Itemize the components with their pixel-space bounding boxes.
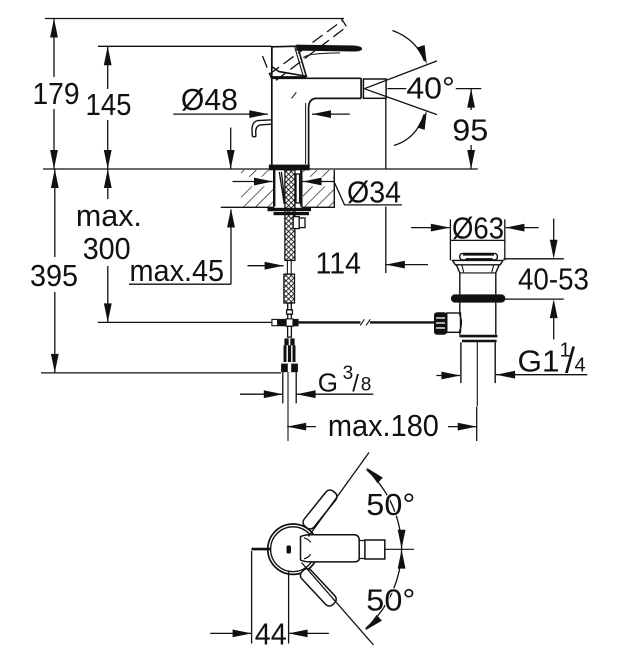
extension line 145 level xyxy=(98,45,272,47)
svg-text:G1: G1 xyxy=(518,343,560,378)
pop-up actuator hook on body xyxy=(252,120,272,137)
svg-text:Ø48: Ø48 xyxy=(181,82,238,117)
faucet body outline xyxy=(272,47,361,165)
supply pipe xyxy=(283,372,296,403)
faucet body circle inner xyxy=(271,527,316,572)
stem below T xyxy=(288,326,292,337)
drain rubber seal xyxy=(451,294,506,302)
lower 50° ray xyxy=(302,563,374,646)
pop-up horizontal rod (right, with break) xyxy=(299,321,437,323)
dimension 395 xyxy=(54,169,56,373)
max.45 upper arrow (deck top) xyxy=(230,128,232,169)
handle raised position (dashed) xyxy=(263,19,347,81)
svg-text:95: 95 xyxy=(452,113,488,148)
dimension 114 vertical line xyxy=(385,207,387,274)
drain taper xyxy=(456,265,499,295)
mounting deck left block xyxy=(221,170,274,207)
svg-text:max.: max. xyxy=(76,198,142,233)
faucet body shoulder (thick top line) xyxy=(272,76,307,79)
arrow Ø34 right (hole right edge) xyxy=(303,181,334,183)
svg-text:40-53: 40-53 xyxy=(518,262,589,297)
spout outlet vertical reference line xyxy=(385,98,387,169)
lower 50° arc xyxy=(366,549,402,628)
arrow Ø48 right side xyxy=(312,113,350,115)
pop-up rod T-connector xyxy=(272,319,299,326)
drain knurled knob xyxy=(434,312,447,335)
arrow 114 left xyxy=(248,265,284,267)
knurled adapter small xyxy=(284,338,294,345)
arrow 114 right xyxy=(386,264,428,266)
bottom reference line (395 level) xyxy=(41,372,281,374)
dimension 44 xyxy=(210,551,329,644)
handle lever (solid) xyxy=(297,45,362,58)
horseshoe washer xyxy=(268,208,312,215)
svg-text:50°: 50° xyxy=(366,487,415,522)
dimension 40-53 xyxy=(504,219,564,340)
dimension 179 xyxy=(53,19,55,170)
svg-text:Ø34: Ø34 xyxy=(347,175,401,210)
svg-text:/: / xyxy=(565,340,575,381)
shank cone wedge below deck xyxy=(279,172,285,204)
shank fixing bolt xyxy=(296,174,300,203)
handle base escutcheon xyxy=(272,46,307,76)
faucet body inner highlight line xyxy=(292,92,306,164)
GROHE logo mark xyxy=(287,546,292,554)
svg-text:50°: 50° xyxy=(366,583,415,618)
drain locking rings xyxy=(459,336,497,341)
rod break marks xyxy=(360,319,370,325)
drain tailpipe xyxy=(461,342,495,383)
extension line top (179 level) xyxy=(45,18,344,20)
threaded shank + upper hose (cross-hatched) xyxy=(285,170,295,260)
svg-text:44: 44 xyxy=(255,617,287,652)
dimension 95 xyxy=(470,89,472,169)
centerline right (top view) xyxy=(385,548,414,550)
label G1 1/4 xyxy=(436,374,587,377)
dimension max.300 xyxy=(107,169,109,322)
spout neck (top view) xyxy=(359,541,365,559)
dimension 145 xyxy=(107,46,109,169)
aerator (top view) xyxy=(365,540,385,559)
upper 50° ray xyxy=(309,453,370,537)
drain centerline xyxy=(476,341,478,406)
lower hose segment (cross-hatched) xyxy=(284,274,295,303)
drain lower body xyxy=(447,303,496,335)
spout (top view) xyxy=(301,535,360,562)
drain pop-up waste: push button cap xyxy=(460,253,498,260)
svg-text:max.45: max.45 xyxy=(130,253,225,288)
G3/8 compression nut xyxy=(281,364,298,373)
faucet base plate xyxy=(269,165,310,171)
svg-text:4: 4 xyxy=(575,355,586,377)
40° upper ray xyxy=(364,61,437,89)
aerator (side view) xyxy=(363,79,386,98)
svg-text:395: 395 xyxy=(30,258,78,293)
faucet body circle outer xyxy=(268,524,318,574)
40° lower ray xyxy=(364,89,437,115)
mounting deck right block xyxy=(301,170,334,207)
pop-up rod stub (top view) xyxy=(252,548,272,551)
drain top flange xyxy=(453,260,504,264)
upper 50° arc xyxy=(367,470,402,550)
dimension max.180 xyxy=(287,407,477,442)
label Ø34 xyxy=(334,182,402,205)
hose break inner tube xyxy=(287,260,291,274)
40° upper arc arrow xyxy=(393,31,425,62)
lower lever (top view) xyxy=(298,567,338,609)
svg-text:max.180: max.180 xyxy=(328,408,439,443)
max.300 reference line xyxy=(98,321,272,323)
svg-text:G: G xyxy=(318,368,338,398)
40° lower arc arrow xyxy=(394,115,424,146)
svg-text:8: 8 xyxy=(361,374,372,395)
faucet centerline extension xyxy=(287,372,289,441)
knurled adapter large xyxy=(284,345,296,362)
svg-text:300: 300 xyxy=(83,231,131,266)
svg-text:114: 114 xyxy=(315,246,361,281)
svg-text:/: / xyxy=(352,371,359,398)
svg-text:145: 145 xyxy=(86,87,132,122)
svg-text:40°: 40° xyxy=(406,71,455,106)
upper lever (top view) xyxy=(301,488,339,531)
deck reference line xyxy=(43,168,478,170)
svg-text:179: 179 xyxy=(33,76,80,111)
label 40° xyxy=(387,88,481,90)
arrow Ø34 left (hole left edge) xyxy=(232,181,272,183)
rod clamp bracket xyxy=(293,217,305,229)
label G 3/8 xyxy=(240,393,373,395)
hose tail tube xyxy=(287,303,293,319)
